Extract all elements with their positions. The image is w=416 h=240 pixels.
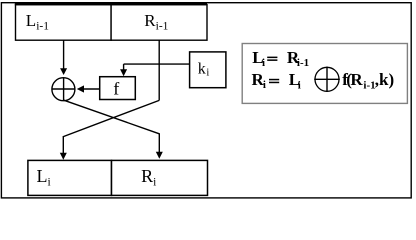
crossover wire Ri-1 to Li (diagonal)	[63, 100, 159, 136]
svg-text:i: i	[262, 57, 265, 69]
svg-text:f: f	[113, 79, 119, 99]
register box Li-1 (top left)	[16, 5, 112, 41]
ki box	[190, 52, 226, 88]
svg-text:i: i	[263, 79, 266, 91]
crossover wire XOR to Ri (diagonal)	[64, 100, 160, 134]
svg-text:,k): ,k)	[375, 70, 394, 89]
register box Li (bottom left)	[28, 160, 112, 195]
f box	[100, 77, 136, 100]
wire ki to f (horizontal)	[124, 63, 190, 65]
arrowhead into Ri box	[156, 152, 163, 159]
wire from Ri-1 down	[158, 40, 160, 100]
svg-text:f(R: f(R	[342, 70, 363, 89]
wire down into f box	[123, 64, 125, 70]
thick top border of top registers	[15, 2, 207, 5]
wire from Li-1 down to XOR	[63, 40, 65, 68]
arrowhead into Li box	[60, 153, 67, 160]
svg-text:i-1: i-1	[297, 57, 309, 69]
arrowhead into XOR top	[60, 68, 67, 75]
wire f to XOR	[84, 88, 100, 90]
svg-text:i-1: i-1	[363, 79, 375, 91]
wire down to Li box	[62, 136, 64, 154]
arrowhead into XOR right	[77, 85, 84, 92]
svg-text:i: i	[298, 79, 301, 91]
register box Ri-1 (top right)	[111, 5, 207, 41]
xor symbol in formula	[315, 67, 339, 91]
register box Ri (bottom right)	[112, 160, 208, 195]
wire down to Ri box	[158, 133, 160, 152]
formula panel	[242, 44, 407, 104]
XOR node (circle-plus)	[52, 78, 75, 101]
arrowhead into f box	[120, 69, 127, 76]
